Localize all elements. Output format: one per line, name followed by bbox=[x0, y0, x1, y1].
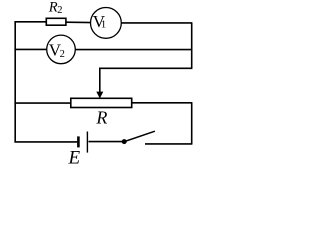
svg-text:1: 1 bbox=[101, 19, 107, 31]
wire: V1 to right bus bbox=[121, 22, 192, 24]
svg-text:R: R bbox=[95, 108, 107, 128]
resistor R2 bbox=[46, 18, 66, 25]
wire: top row, left bus to R2 bbox=[14, 21, 47, 23]
wiper arrowhead onto rheostat bbox=[96, 92, 103, 99]
wire: wiper row to right bus bbox=[100, 67, 193, 69]
wire: wiper vertical drop bbox=[99, 68, 101, 93]
meter: voltmeter V2 circle bbox=[47, 35, 76, 64]
rheostat R box bbox=[71, 98, 132, 107]
wire: bottom row, switch contact to right bus bbox=[145, 143, 192, 145]
switch pivot node bbox=[122, 139, 127, 144]
wire: R2 to voltmeter V1 bbox=[66, 21, 92, 23]
svg-text:2: 2 bbox=[57, 5, 62, 16]
wire: right vertical bus (lower) bbox=[191, 103, 193, 144]
svg-text:2: 2 bbox=[60, 49, 65, 60]
wire: left bus to battery negative plate bbox=[14, 141, 77, 143]
battery E: short (negative) plate bbox=[77, 136, 80, 147]
switch blade bbox=[124, 131, 155, 141]
op-amp/meter: voltmeter V1 circle bbox=[91, 8, 122, 39]
wire: right vertical bus (upper) bbox=[191, 23, 193, 68]
wire: V2 to right bus bbox=[75, 49, 192, 51]
wire: battery positive plate to switch pivot bbox=[89, 141, 125, 143]
battery E: long (positive) plate bbox=[86, 132, 88, 153]
wire: rheostat right terminal to right bus bbox=[132, 102, 193, 104]
wire: left vertical bus bbox=[14, 22, 16, 142]
svg-text:E: E bbox=[68, 147, 81, 168]
wire: left bus to rheostat left terminal bbox=[14, 102, 71, 104]
wire: V2 row, left bus to V2 bbox=[14, 48, 47, 50]
